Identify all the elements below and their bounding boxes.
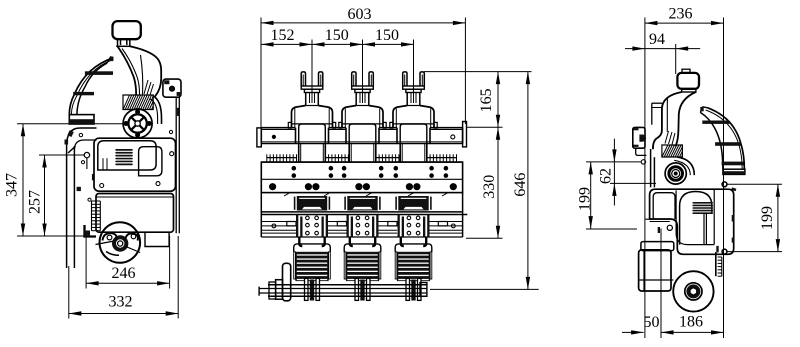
svg-text:257: 257 xyxy=(27,190,44,214)
svg-text:199: 199 xyxy=(759,206,776,230)
svg-text:332: 332 xyxy=(109,294,133,311)
svg-text:50: 50 xyxy=(644,314,660,331)
svg-text:603: 603 xyxy=(348,6,372,23)
svg-text:236: 236 xyxy=(669,6,693,23)
svg-text:199: 199 xyxy=(577,187,594,211)
svg-text:246: 246 xyxy=(112,265,136,282)
svg-text:186: 186 xyxy=(679,314,703,331)
svg-text:150: 150 xyxy=(375,27,399,44)
svg-text:62: 62 xyxy=(598,168,615,184)
svg-text:94: 94 xyxy=(649,31,665,48)
svg-text:330: 330 xyxy=(481,175,498,199)
svg-text:152: 152 xyxy=(271,27,295,44)
svg-text:150: 150 xyxy=(325,27,349,44)
svg-text:347: 347 xyxy=(4,173,21,197)
svg-text:646: 646 xyxy=(512,173,529,197)
svg-text:165: 165 xyxy=(478,88,495,112)
